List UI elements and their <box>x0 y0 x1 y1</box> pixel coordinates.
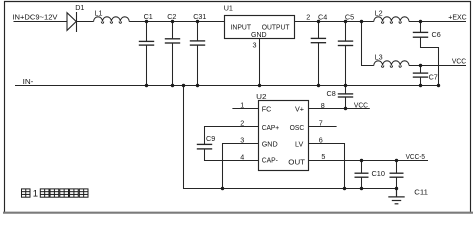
capacitor C11 <box>390 161 404 189</box>
U2 pin7 stub <box>309 126 337 128</box>
svg-text:C11: C11 <box>414 188 428 197</box>
junction C4 IN- rail <box>317 84 320 87</box>
svg-text:VCC: VCC <box>452 56 466 65</box>
capacitor C31 <box>190 22 205 86</box>
svg-text:8: 8 <box>321 101 325 110</box>
svg-text:5: 5 <box>321 152 325 161</box>
junction C7 IN- rail <box>419 84 422 87</box>
svg-text:1: 1 <box>240 101 244 110</box>
capacitor C2 <box>165 22 180 86</box>
svg-text:C9: C9 <box>206 134 215 143</box>
wire U1 output rail <box>295 21 374 23</box>
svg-text:6: 6 <box>319 136 323 145</box>
junction C7 VCC rail <box>419 64 422 67</box>
junction C8 VCC line <box>344 107 347 110</box>
junction C5-C8 IN- rail <box>344 84 347 87</box>
wire L1 to U1 <box>129 21 224 23</box>
inductor L2 <box>374 17 409 22</box>
junction C5 output rail <box>344 20 347 23</box>
junction node to L3 <box>360 20 363 23</box>
svg-text:C5: C5 <box>345 13 354 22</box>
junction C10 ground line <box>360 187 363 190</box>
regulator U1 box <box>225 16 295 39</box>
bottom gray rule <box>3 212 473 214</box>
capacitor C9 <box>197 144 259 160</box>
svg-text:7: 7 <box>319 119 323 128</box>
junction C2 top rail <box>171 20 174 23</box>
svg-text:U2: U2 <box>256 92 266 101</box>
junction C4 output rail <box>317 20 320 23</box>
svg-text:C4: C4 <box>318 13 327 22</box>
svg-text:L3: L3 <box>375 52 383 61</box>
svg-text:V+: V+ <box>295 105 304 114</box>
capacitor C5 <box>338 22 353 86</box>
junction C31 IN- rail <box>196 84 199 87</box>
inductor L1 <box>94 17 130 22</box>
junction C1 top rail <box>145 20 148 23</box>
svg-text:CAP-: CAP- <box>262 156 279 165</box>
svg-text:CAP+: CAP+ <box>262 123 280 132</box>
U1 pin3 GND stem <box>259 39 261 86</box>
capacitor C1 <box>139 22 154 86</box>
wire diode to L1 <box>77 21 94 23</box>
capacitor C7 <box>413 66 428 86</box>
svg-text:C6: C6 <box>432 30 441 39</box>
junction C2 IN- rail <box>171 84 174 87</box>
svg-text:FC: FC <box>262 105 272 114</box>
svg-text:INPUT: INPUT <box>231 22 252 31</box>
svg-text:4: 4 <box>240 152 244 161</box>
svg-text:+EXC: +EXC <box>448 12 466 21</box>
capacitor C8 <box>338 86 353 109</box>
capacitor C6 <box>413 22 439 86</box>
svg-text:GND: GND <box>251 30 267 39</box>
wire node to L3 (down then right) <box>362 22 374 66</box>
svg-text:D1: D1 <box>75 3 84 12</box>
svg-text:C8: C8 <box>327 89 336 98</box>
capacitor C10 <box>355 161 369 189</box>
U2 pin1 stub <box>232 108 258 110</box>
svg-text:3: 3 <box>240 136 244 145</box>
svg-text:C7: C7 <box>429 73 438 82</box>
junction C1 IN- rail <box>145 84 148 87</box>
caption 图 1 电源设计图 <box>22 189 89 197</box>
U2 pin3 wire to ground return <box>223 144 259 189</box>
svg-text:L1: L1 <box>95 8 103 17</box>
svg-text:L2: L2 <box>375 9 383 18</box>
svg-text:C2: C2 <box>167 12 176 21</box>
svg-text:VCC-5: VCC-5 <box>406 152 425 161</box>
junction LV ground line <box>343 187 346 190</box>
capacitor C4 <box>311 22 326 86</box>
diode D1 <box>67 12 77 32</box>
junction C11 ground line <box>395 187 398 190</box>
ground symbol <box>388 189 404 204</box>
svg-text:IN+DC9~12V: IN+DC9~12V <box>12 13 57 22</box>
junction C10 OUT line <box>360 159 363 162</box>
svg-text:OUT: OUT <box>288 157 305 166</box>
junction U1 GND IN- rail <box>258 84 261 87</box>
svg-text:VCC: VCC <box>354 100 368 109</box>
junction U2 GND ground line <box>221 187 224 190</box>
U2 pin5 OUT wire <box>309 160 429 162</box>
svg-text:2: 2 <box>306 13 310 22</box>
junction C11 OUT line <box>395 159 398 162</box>
svg-text:3: 3 <box>253 41 257 50</box>
svg-text:1: 1 <box>33 189 38 200</box>
U2 pin6 wire LV to ground <box>309 144 345 189</box>
junction C6 IN- rail end <box>437 84 440 87</box>
U2 pin8 wire VCC <box>309 108 370 110</box>
svg-text:GND: GND <box>262 139 278 148</box>
svg-text:C1: C1 <box>144 12 153 21</box>
wire IN- rail to ground return <box>184 86 397 189</box>
svg-text:IN-: IN- <box>23 77 34 86</box>
inductor L3 <box>374 61 409 66</box>
junction ground descender IN- rail <box>182 84 185 87</box>
junction C31 top rail <box>196 20 199 23</box>
svg-text:C10: C10 <box>372 169 385 178</box>
svg-text:LV: LV <box>295 139 303 148</box>
wire L2 to +EXC <box>409 21 466 23</box>
U2 pin2 wire to C9 <box>205 127 259 145</box>
IN- rail <box>15 85 439 87</box>
wire IN+ to diode <box>14 21 68 23</box>
junction C6 +EXC rail <box>419 20 422 23</box>
svg-text:U1: U1 <box>224 4 233 13</box>
wire L3 to VCC <box>409 65 466 67</box>
svg-text:OSC: OSC <box>290 123 305 132</box>
svg-text:2: 2 <box>240 119 244 128</box>
svg-text:C31: C31 <box>193 12 206 21</box>
U2 box <box>259 101 309 171</box>
